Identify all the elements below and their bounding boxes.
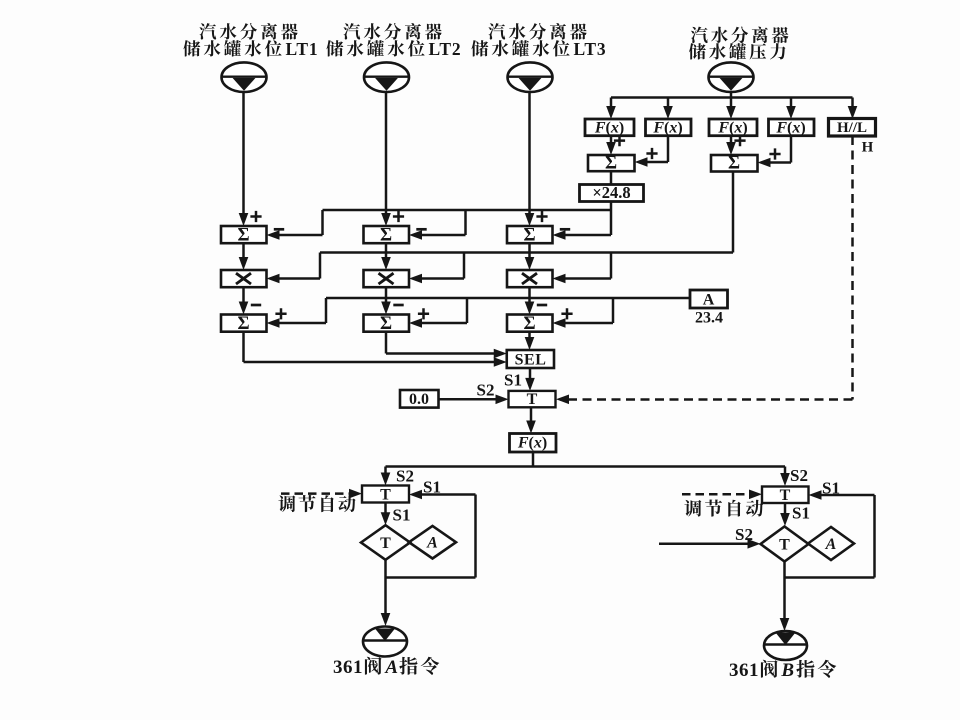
multiplier MUL-LT1	[221, 270, 267, 287]
svg-text:Σ: Σ	[523, 225, 535, 245]
svg-text:F(x): F(x)	[652, 119, 682, 136]
valve actuator A	[363, 627, 407, 657]
auto diamond A-A	[409, 526, 456, 559]
svg-text:T: T	[527, 391, 538, 408]
wire SUM-LT3-b to selector	[528, 332, 531, 338]
wire SUM-P1 to multiplier 24.8	[610, 171, 613, 184]
wire row2 feed into MUL-LT2	[421, 277, 464, 280]
wire row1 feed into SUM-LT1-a	[279, 234, 323, 237]
dashed wire manual-auto into T-B	[682, 493, 753, 496]
switch block T-B	[762, 487, 809, 504]
svg-text:S2: S2	[790, 466, 808, 485]
gain block ×24.8	[580, 185, 644, 202]
high-low limit block H//L	[829, 119, 876, 137]
pressure summer SUM-P1	[588, 155, 635, 171]
plus sign LT2 summer2 right input	[418, 308, 429, 319]
svg-text:T: T	[380, 487, 391, 504]
transmitter LT1	[222, 62, 267, 92]
label 汽水分离器 储水罐压力	[691, 27, 788, 44]
switch block T center	[509, 391, 556, 407]
wire row2 gain feed from pressure summer	[732, 172, 735, 253]
minus sign LT2 summer2 top input	[393, 304, 403, 307]
svg-text:S2: S2	[396, 467, 414, 486]
summer SUM-LT1-a	[221, 226, 267, 243]
svg-text:S1: S1	[504, 371, 522, 390]
wire diamond to valve B	[783, 562, 786, 620]
wire pressure transmitter to branch	[730, 92, 733, 98]
wire S2 into diamond T-B	[659, 543, 752, 546]
svg-text:H//L: H//L	[837, 120, 867, 136]
wire LT1 summer to multiplier	[242, 243, 245, 258]
summer SUM-LT2-a	[364, 226, 410, 243]
wire row3 bias feed from constant A	[326, 297, 690, 300]
wire row3 feed into SUM-LT2-b	[421, 322, 467, 325]
wire F(x)P3 to pressure summer 2	[730, 136, 733, 143]
plus sign LT2 summer input	[393, 211, 404, 222]
svg-text:B: B	[780, 660, 794, 681]
auto diamond A-B	[808, 527, 854, 560]
minus sign LT3 summer right input	[560, 228, 570, 231]
svg-text:A: A	[703, 292, 715, 309]
summer SUM-LT1-b	[221, 315, 267, 332]
svg-text:A: A	[384, 657, 398, 678]
label 汽水分离器 储水罐水位LT3	[488, 23, 586, 40]
wire T-A to transfer diamond	[384, 503, 387, 514]
wire row2 feed into MUL-LT3	[565, 277, 612, 280]
wire row3 feed into SUM-LT1-b	[279, 322, 327, 325]
dashed wire H//L to tracking switch T	[851, 136, 854, 400]
svg-text:T: T	[380, 535, 391, 552]
svg-text:F(x): F(x)	[517, 435, 547, 452]
wire F(x)P2 to SUM-P1	[667, 136, 670, 162]
constant block 0.0	[400, 390, 439, 408]
summer SUM-LT3-b	[507, 315, 553, 332]
svg-text:LT3: LT3	[574, 39, 607, 59]
summer SUM-LT3-a	[507, 226, 553, 243]
wire SUM-LT1-b to selector	[242, 332, 245, 362]
plus sign LT1 summer input	[250, 211, 261, 222]
wire 0.0 to switch T	[439, 398, 500, 401]
wire row3 feed into SUM-LT3-b	[565, 322, 614, 325]
multiplier MUL-LT3	[507, 270, 553, 287]
wire LT3 multiplier to summer2	[528, 287, 531, 302]
svg-text:Σ: Σ	[728, 153, 740, 173]
svg-text:T: T	[779, 537, 790, 554]
wire T-A feedback loop	[418, 493, 476, 496]
selector block SEL	[507, 350, 554, 368]
function block F(x) P3	[709, 119, 757, 136]
svg-text:361: 361	[333, 657, 363, 678]
wire diamond to valve A	[384, 560, 387, 614]
wire SUM-LT2-b to selector	[385, 332, 388, 354]
svg-text:Σ: Σ	[523, 314, 535, 334]
plus sign SUM-P1 right input	[646, 148, 657, 159]
svg-text:T: T	[780, 487, 791, 504]
switch block T-A	[362, 486, 409, 503]
svg-text:0.0: 0.0	[409, 391, 429, 408]
label 调节自动 B	[684, 500, 763, 517]
plus sign P2 summer top input	[734, 135, 745, 146]
label 汽水分离器 储水罐水位LT2	[343, 23, 441, 40]
wire F(x)P1 to pressure summer 1	[610, 136, 613, 143]
wire LT1 multiplier to summer2	[242, 287, 245, 302]
label 汽水分离器 储水罐水位LT1	[199, 23, 297, 40]
plus sign P1 summer top input	[614, 135, 625, 146]
svg-text:SEL: SEL	[515, 351, 547, 368]
minus sign LT3 summer2 top input	[537, 304, 547, 307]
svg-text:Σ: Σ	[237, 225, 249, 245]
dashed wire manual-auto into T-A	[281, 492, 353, 495]
function block F(x) P2	[646, 119, 692, 136]
transmitter LT2	[364, 62, 409, 92]
plus sign LT3 summer2 right input	[561, 308, 572, 319]
function block F(x) output	[510, 434, 557, 453]
multiplier MUL-LT2	[364, 270, 410, 287]
minus sign LT1 summer right input	[274, 228, 284, 231]
wire F(x) split to valve switches	[532, 452, 535, 467]
wire T to F(x)	[530, 407, 533, 421]
svg-text:A: A	[825, 536, 837, 553]
plus sign LT1 summer2 right input	[275, 308, 286, 319]
label 调节自动 A	[278, 495, 355, 512]
svg-text:23.4: 23.4	[695, 310, 723, 327]
wire row2 feed into MUL-LT1	[279, 277, 321, 280]
svg-text:S2: S2	[477, 381, 495, 400]
minus sign LT2 summer right input	[416, 228, 426, 231]
wire T-B to transfer diamond	[784, 503, 787, 514]
wire LT1 transmitter to summer	[242, 92, 245, 214]
wire LT3 transmitter to summer	[528, 92, 531, 214]
wire LT2 transmitter to summer	[385, 92, 388, 214]
transmitter LT3	[508, 62, 553, 92]
pressure summer SUM-P2	[711, 155, 758, 172]
transfer diamond T-B	[761, 527, 809, 562]
wire LT2 multiplier to summer2	[385, 287, 388, 302]
wire row1 feed into SUM-LT2-a	[421, 234, 466, 237]
wire LT2 summer to multiplier	[385, 243, 388, 258]
svg-text:F(x): F(x)	[594, 119, 624, 136]
function block F(x) P4	[769, 119, 815, 136]
function block F(x) P1	[585, 119, 634, 136]
plus sign SUM-P2 right input	[769, 148, 780, 159]
svg-text:F(x): F(x)	[717, 119, 747, 136]
svg-text:S1: S1	[393, 506, 411, 525]
transfer diamond T-A	[361, 525, 410, 560]
svg-text:Σ: Σ	[380, 225, 392, 245]
wire row1 setpoint feed from multiplier24.8	[610, 202, 613, 236]
valve actuator B	[764, 631, 807, 660]
plus sign LT3 summer input	[536, 211, 547, 222]
svg-text:LT2: LT2	[429, 39, 462, 59]
wire row1 feed into SUM-LT3-a	[565, 234, 612, 237]
svg-text:×24.8: ×24.8	[592, 183, 630, 202]
wire LT3 summer to multiplier	[528, 243, 531, 258]
svg-text:F(x): F(x)	[775, 119, 805, 136]
constant block A	[690, 290, 728, 308]
svg-text:A: A	[426, 535, 438, 552]
wire F(x)P4 to SUM-P2	[790, 136, 793, 163]
svg-text:Σ: Σ	[605, 153, 617, 173]
svg-text:S1: S1	[792, 504, 810, 523]
wire SEL to switch T	[529, 368, 532, 379]
wire T-B feedback loop	[818, 494, 875, 497]
svg-text:LT1: LT1	[286, 39, 319, 59]
svg-text:Σ: Σ	[237, 314, 249, 334]
svg-text:361: 361	[729, 660, 759, 681]
svg-text:H: H	[862, 140, 874, 156]
pressure transmitter	[709, 62, 754, 92]
svg-text:Σ: Σ	[380, 314, 392, 334]
minus sign LT1 summer2 top input	[251, 304, 261, 307]
summer SUM-LT2-b	[364, 315, 410, 332]
wire pressure branch header	[611, 96, 853, 99]
